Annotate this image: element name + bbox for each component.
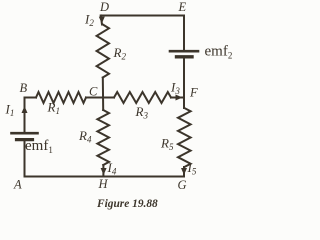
- svg-text:R1: R1: [47, 100, 60, 117]
- wire R4 to node H: [102, 165, 104, 177]
- svg-text:emf1: emf1: [25, 138, 53, 155]
- svg-text:D: D: [99, 0, 109, 14]
- svg-text:R4: R4: [78, 128, 92, 145]
- wire left branch: emf1 bottom plate down to A: [24, 141, 26, 177]
- wire center: D corner down to I2 arrow: [101, 16, 102, 25]
- wire middle: B corner to R1: [25, 97, 37, 99]
- wire R5 to node G: [183, 167, 185, 177]
- resistor R4: [97, 110, 109, 165]
- current arrow I3 (right): [176, 95, 183, 101]
- svg-text:I3: I3: [170, 80, 180, 97]
- current arrow I1 (up): [22, 106, 28, 113]
- resistor R3: [114, 92, 171, 103]
- wire bottom A-H-G: [25, 176, 185, 178]
- svg-text:emf2: emf2: [205, 44, 233, 61]
- svg-text:R2: R2: [113, 45, 127, 62]
- wire left branch: B down to emf1 top plate: [24, 98, 26, 133]
- wire emf2 bottom plate down to node F: [183, 58, 185, 108]
- svg-text:H: H: [98, 177, 109, 191]
- svg-text:C: C: [89, 85, 98, 99]
- resistor R5: [178, 108, 191, 167]
- resistor R2: [97, 25, 109, 78]
- svg-text:R3: R3: [135, 104, 149, 121]
- svg-text:R5: R5: [160, 136, 174, 153]
- wire R3 to node F: [171, 97, 184, 99]
- svg-text:I4: I4: [107, 160, 117, 177]
- svg-text:F: F: [189, 86, 198, 100]
- svg-text:E: E: [178, 0, 187, 14]
- wire top D-E: [101, 15, 184, 17]
- current arrow I4 (down): [101, 168, 107, 175]
- svg-text:A: A: [13, 178, 22, 192]
- svg-text:I5: I5: [187, 160, 197, 177]
- battery emf2 short plate: [177, 55, 193, 58]
- battery emf1 long plate: [12, 132, 38, 135]
- wire R2 to node C and on to R4: [102, 78, 104, 111]
- wire right: E corner down to emf2 top plate: [183, 16, 185, 51]
- svg-text:G: G: [178, 178, 187, 192]
- current arrow I2 (down): [99, 17, 105, 24]
- svg-text:Figure 19.88: Figure 19.88: [96, 198, 158, 210]
- battery emf1 short plate: [17, 138, 33, 141]
- resistor R1: [36, 92, 86, 103]
- wire R1 to node C: [86, 97, 114, 99]
- svg-text:I2: I2: [84, 12, 94, 29]
- svg-text:I1: I1: [5, 102, 15, 119]
- battery emf2 long plate: [170, 50, 198, 53]
- current arrow I5 (down): [181, 168, 187, 175]
- svg-text:B: B: [20, 81, 28, 95]
